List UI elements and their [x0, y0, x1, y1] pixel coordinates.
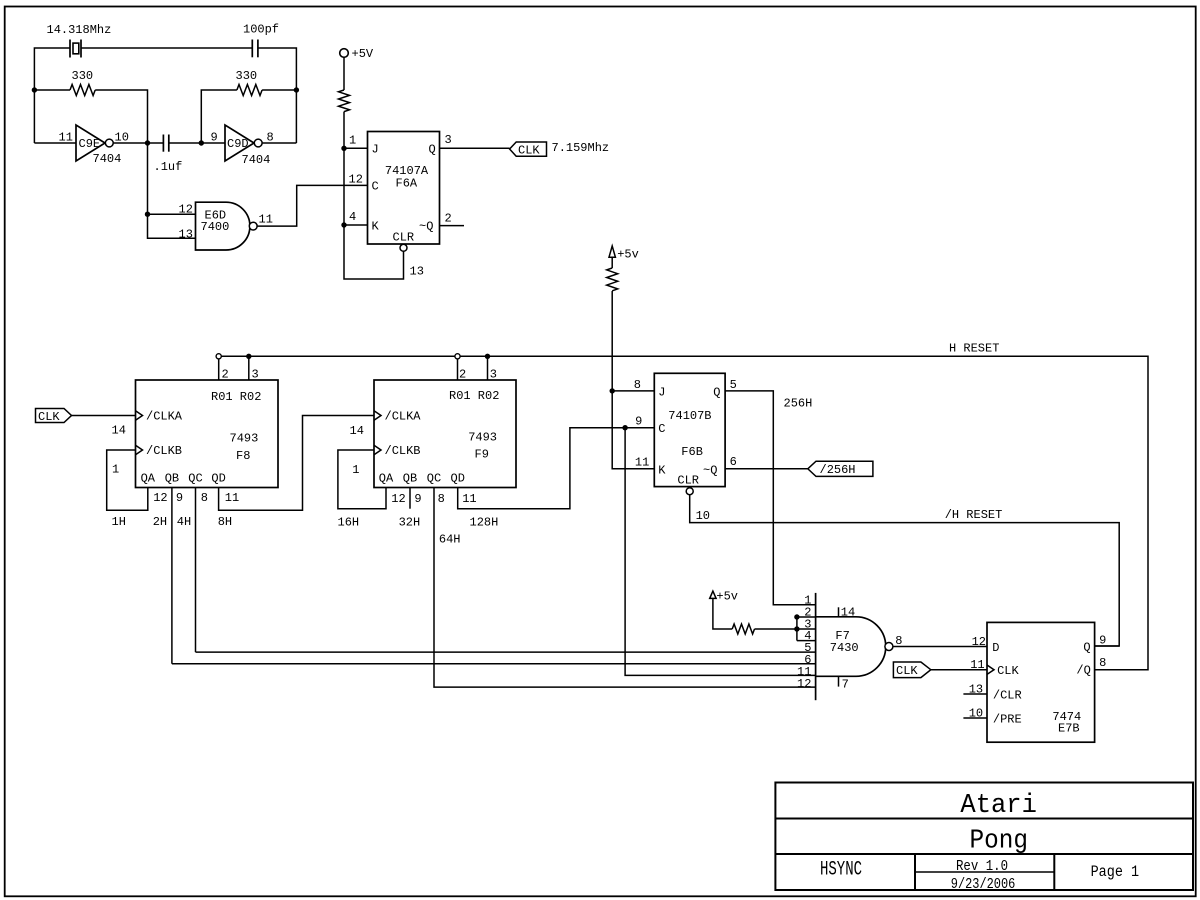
svg-text:QD: QD — [451, 472, 465, 486]
svg-text:C: C — [658, 422, 665, 436]
counter U F8 7493 — [136, 380, 279, 488]
svg-text:14.318Mhz: 14.318Mhz — [47, 23, 112, 37]
svg-text:Atari: Atari — [960, 791, 1037, 821]
svg-text:1: 1 — [349, 134, 356, 148]
svg-text:Q: Q — [429, 143, 436, 157]
clock arrow CLKA F9 — [374, 411, 381, 420]
svg-text:7430: 7430 — [830, 641, 859, 655]
wire E6D out to F6A C — [257, 185, 367, 226]
wire F7 out to E7B D — [893, 646, 987, 648]
net tag /256H — [808, 461, 873, 476]
svg-text:14: 14 — [841, 606, 855, 620]
resistor R 330 right — [201, 85, 296, 144]
svg-text:D: D — [992, 641, 999, 655]
wire CLK to F8 — [72, 415, 136, 417]
net tag CLK input E7B — [893, 662, 930, 678]
power arrow +5v F7 — [710, 591, 716, 598]
wire F9 pin2 stub — [457, 356, 459, 380]
svg-text:+5v: +5v — [716, 590, 738, 604]
svg-text:8: 8 — [634, 378, 641, 392]
clock arrow CLKA F8 — [136, 411, 143, 420]
svg-text:J: J — [372, 143, 379, 157]
svg-text:QB: QB — [165, 472, 179, 486]
junction F9 pin3 — [485, 354, 490, 359]
resistor R 330 left — [34, 85, 147, 144]
svg-text:QA: QA — [379, 472, 394, 486]
svg-text:6: 6 — [730, 455, 737, 469]
junction J F6B — [610, 388, 615, 393]
wire F8 QA loop to CLKB — [107, 450, 148, 510]
svg-text:2: 2 — [445, 212, 452, 226]
svg-text:10: 10 — [696, 509, 710, 523]
svg-text:11: 11 — [462, 492, 476, 506]
junction right osc — [294, 87, 299, 92]
svg-text:7404: 7404 — [93, 152, 122, 166]
svg-text:12: 12 — [349, 173, 363, 187]
svg-text:HSYNC: HSYNC — [820, 859, 862, 882]
svg-text:/CLR: /CLR — [993, 689, 1022, 703]
wire F9 QD 128H to F6B C — [458, 428, 655, 509]
wire H RESET net — [221, 356, 1148, 669]
junction NAND pin12 — [145, 212, 150, 217]
wire Q pin9 to /H RESET — [1095, 645, 1120, 647]
bubble CLR F6B — [686, 488, 693, 495]
svg-text:11: 11 — [635, 456, 649, 470]
wire ~Q pin2 stub — [440, 225, 465, 227]
wire F8 pin3 stub — [248, 356, 250, 380]
svg-text:QD: QD — [211, 472, 225, 486]
svg-text:74107B: 74107B — [668, 409, 711, 423]
wire cap to C9D input — [169, 142, 225, 144]
svg-text:CLR: CLR — [393, 231, 415, 245]
wire F8 QB 2H down — [171, 488, 173, 664]
svg-text:CLK: CLK — [997, 664, 1019, 678]
svg-text:32H: 32H — [399, 516, 421, 530]
wire C9D out — [262, 142, 296, 144]
svg-text:11: 11 — [59, 131, 73, 145]
svg-text:12: 12 — [153, 491, 167, 505]
wire NAND pin12 — [148, 213, 196, 215]
svg-text:5: 5 — [730, 378, 737, 392]
flip-flop U F6A 74107A — [368, 132, 440, 245]
wire crystal to 100pf — [81, 47, 252, 49]
svg-text:11: 11 — [259, 213, 273, 227]
svg-text:Pong: Pong — [970, 827, 1029, 857]
svg-text:~Q: ~Q — [703, 463, 717, 477]
open circle F9 pin2 — [455, 354, 460, 359]
svg-text:330: 330 — [72, 69, 94, 83]
wire 100pf to right vertical — [258, 48, 297, 143]
svg-text:K: K — [372, 220, 380, 234]
flip-flop U E7B 7474 — [987, 622, 1095, 742]
wire F7 pin6 from 2H — [172, 663, 816, 665]
svg-text:10: 10 — [969, 707, 983, 721]
counter U F9 7493 — [374, 380, 516, 488]
svg-text:/H RESET: /H RESET — [945, 508, 1003, 522]
wire CLK tag to E7B — [931, 669, 987, 671]
clock arrow CLKB F8 — [136, 445, 143, 454]
junction C9D input — [199, 140, 204, 145]
resistor pullup F6A — [339, 90, 350, 112]
wire resistor to J and K — [344, 112, 404, 279]
svg-text:F6A: F6A — [396, 177, 418, 191]
net tag CLK output — [510, 142, 547, 156]
svg-text:7: 7 — [842, 677, 849, 691]
title col divider 1 — [914, 854, 916, 890]
svg-text:/CLKA: /CLKA — [146, 410, 183, 424]
svg-text:F6B: F6B — [681, 445, 703, 459]
svg-text:/PRE: /PRE — [993, 713, 1022, 727]
clock arrow E7B — [987, 665, 994, 674]
wire resistor to J K — [612, 291, 654, 469]
svg-text:J: J — [658, 386, 665, 400]
gate input bar F7 — [815, 593, 817, 700]
wire F7 pin4 — [797, 640, 816, 642]
svg-text:8: 8 — [438, 492, 445, 506]
svg-text:R01 R02: R01 R02 — [449, 389, 499, 403]
power +5V terminal — [340, 49, 349, 58]
wire F8 QD 8H to F9 CLKA — [219, 416, 374, 511]
wire top loop left segment — [34, 48, 70, 143]
junction left osc — [32, 87, 37, 92]
capacitor 100pf — [252, 40, 258, 58]
svg-text:64H: 64H — [439, 533, 461, 547]
wire F8 pin2 stub — [218, 359, 220, 380]
title row divider 1 — [775, 818, 1193, 820]
svg-text:QC: QC — [427, 472, 441, 486]
bubble F7 output — [885, 643, 893, 651]
svg-text:2: 2 — [459, 368, 466, 382]
svg-text:330: 330 — [236, 69, 258, 83]
svg-text:3: 3 — [252, 368, 259, 382]
svg-text:13: 13 — [179, 228, 193, 242]
nand gate F7 7430 body — [816, 617, 886, 677]
svg-text:K: K — [658, 463, 666, 477]
pin14 tick F7 — [838, 607, 840, 617]
junction F7 pin3 tie — [794, 626, 799, 631]
inverter C9D 7404 — [225, 125, 262, 161]
bubble CLR F6A — [400, 244, 407, 251]
wire pin8 J — [612, 390, 654, 392]
svg-text:7493: 7493 — [468, 431, 497, 445]
svg-text:7400: 7400 — [201, 220, 230, 234]
svg-text:CLR: CLR — [677, 473, 699, 487]
wire pin4 K — [344, 224, 368, 226]
resistor pullup F7 — [732, 624, 754, 634]
wire Q pin3 — [440, 147, 510, 149]
svg-text:12: 12 — [179, 203, 193, 217]
title col divider 2 — [1053, 854, 1055, 890]
svg-text:/Q: /Q — [1076, 664, 1090, 678]
svg-text:1H: 1H — [112, 515, 126, 529]
net tag CLK input F8 — [36, 409, 72, 423]
svg-text:Q: Q — [713, 386, 720, 400]
wire tie pins 2 3 4 — [796, 617, 798, 641]
svg-text:+5V: +5V — [352, 47, 374, 61]
nand gate E6D 7400 — [196, 202, 258, 250]
title row divider 2 — [775, 853, 1193, 855]
wire /PRE stub E7B — [963, 717, 987, 719]
svg-text:12: 12 — [797, 677, 811, 691]
wire +5v down — [611, 257, 613, 268]
pin7 tick F7 — [838, 676, 840, 686]
svg-text:CLK: CLK — [896, 664, 918, 678]
svg-text:13: 13 — [410, 265, 424, 279]
svg-text:9: 9 — [1099, 634, 1106, 648]
junction J F6A — [341, 146, 346, 151]
svg-text:1: 1 — [112, 463, 119, 477]
wire Q 256H to F7 pin1 — [725, 391, 816, 605]
wire /CLR stub E7B — [963, 693, 987, 695]
wire F7 pin11 from 128H — [625, 428, 816, 676]
svg-text:CLK: CLK — [38, 410, 60, 424]
power arrow +5v mid — [609, 246, 615, 257]
svg-text:/CLKB: /CLKB — [146, 444, 182, 458]
svg-text:9: 9 — [414, 492, 421, 506]
svg-text:2: 2 — [222, 368, 229, 382]
svg-text:7493: 7493 — [230, 432, 259, 446]
wire F9 QB 32H stub — [409, 488, 411, 509]
junction 128H branch — [622, 425, 627, 430]
svg-text:9: 9 — [176, 491, 183, 505]
wire C9E input — [34, 142, 76, 144]
svg-text:Page 1: Page 1 — [1091, 863, 1140, 881]
svg-text:4: 4 — [349, 210, 356, 224]
svg-text:9/23/2006: 9/23/2006 — [951, 876, 1016, 893]
svg-text:9: 9 — [211, 131, 218, 145]
svg-text:12: 12 — [972, 635, 986, 649]
svg-text:F9: F9 — [475, 448, 489, 462]
wire +5V down — [343, 57, 345, 90]
svg-text:1: 1 — [352, 463, 359, 477]
flip-flop U F6B 74107B — [654, 373, 725, 486]
svg-text:F8: F8 — [236, 449, 250, 463]
svg-text:256H: 256H — [784, 397, 813, 411]
svg-text:7404: 7404 — [242, 153, 271, 167]
svg-text:16H: 16H — [338, 516, 360, 530]
svg-text:QC: QC — [188, 472, 202, 486]
svg-text:Q: Q — [1083, 641, 1090, 655]
wire F9 QA loop to CLKB — [338, 450, 386, 509]
junction F8 pin3 — [246, 354, 251, 359]
crystal Y1 14.318Mhz — [70, 40, 81, 58]
svg-text:+5v: +5v — [617, 248, 639, 262]
svg-text:11: 11 — [970, 658, 984, 672]
svg-text:QB: QB — [403, 472, 417, 486]
svg-text:14: 14 — [350, 424, 364, 438]
svg-text:C: C — [372, 180, 379, 194]
svg-text:/256H: /256H — [820, 463, 856, 477]
svg-text:8: 8 — [1099, 656, 1106, 670]
open circle F8 pin2 — [216, 354, 221, 359]
junction K F6A — [341, 222, 346, 227]
svg-text:12: 12 — [391, 492, 405, 506]
svg-text:8: 8 — [201, 491, 208, 505]
wire +5v to resistor — [713, 598, 732, 629]
wire F7 pin2 — [797, 616, 816, 618]
svg-text:QA: QA — [141, 472, 156, 486]
wire pin1 J — [344, 147, 368, 149]
svg-text:100pf: 100pf — [243, 23, 279, 37]
wire F9 pin3 stub — [487, 356, 489, 380]
wire F9 QC 64H to F7 pin12 — [434, 488, 816, 688]
svg-text:.1uf: .1uf — [154, 160, 183, 174]
inverter C9E 7404 — [76, 125, 113, 161]
svg-text:CLK: CLK — [518, 144, 540, 158]
svg-text:H RESET: H RESET — [949, 342, 999, 356]
capacitor .1uf — [163, 135, 168, 152]
svg-text:4H: 4H — [177, 515, 191, 529]
svg-text:8H: 8H — [218, 515, 232, 529]
svg-text:/CLKB: /CLKB — [385, 444, 421, 458]
wire /H RESET net — [690, 495, 1119, 646]
wire C9E out to cap — [113, 142, 163, 144]
svg-text:C9E: C9E — [79, 137, 101, 151]
wire F7 pin5 from 4H — [196, 651, 816, 653]
clock arrow CLKB F9 — [374, 445, 381, 454]
svg-text:/CLKA: /CLKA — [385, 410, 422, 424]
wire F8 QC 4H down — [195, 488, 197, 653]
svg-text:3: 3 — [445, 133, 452, 147]
svg-text:7.159Mhz: 7.159Mhz — [552, 141, 610, 155]
svg-text:C9D: C9D — [227, 137, 249, 151]
title block frame — [775, 783, 1193, 891]
svg-text:R01 R02: R01 R02 — [211, 390, 261, 404]
svg-text:Rev 1.0: Rev 1.0 — [956, 858, 1008, 875]
svg-text:14: 14 — [112, 424, 126, 438]
svg-text:E7B: E7B — [1058, 722, 1080, 736]
svg-text:3: 3 — [490, 368, 497, 382]
junction cap left — [145, 140, 150, 145]
title mid divider — [915, 871, 1054, 873]
svg-text:128H: 128H — [470, 516, 499, 530]
svg-text:13: 13 — [969, 683, 983, 697]
svg-text:~Q: ~Q — [419, 220, 433, 234]
svg-text:11: 11 — [225, 491, 239, 505]
junction F7 pin2 tie — [794, 614, 799, 619]
wire NAND input vertical — [148, 143, 196, 238]
svg-text:9: 9 — [635, 415, 642, 429]
wire resistor to pin3 — [755, 628, 816, 630]
resistor pullup F6B — [607, 268, 618, 291]
wire ~Q pin6 to tag — [725, 468, 808, 470]
svg-text:2H: 2H — [153, 515, 167, 529]
